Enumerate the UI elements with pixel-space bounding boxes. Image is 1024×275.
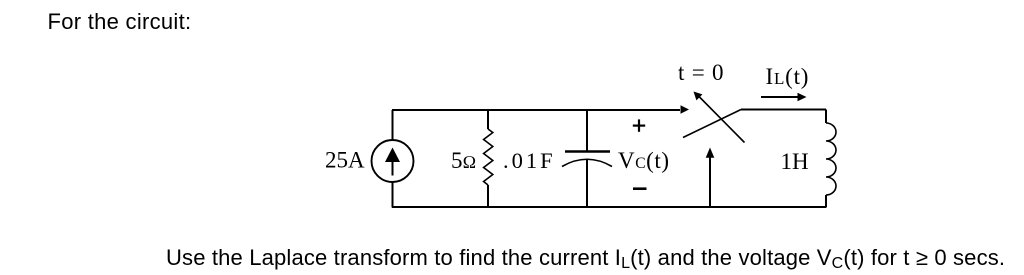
switch pole riser from bottom rail [709, 155, 711, 208]
wire: resistor bottom lead [487, 185, 489, 208]
current arrow IL(t) [761, 93, 807, 101]
switch blade (opening motion line) [699, 97, 745, 143]
resistor zigzag body [484, 129, 493, 185]
switch pole arrow head [706, 148, 715, 158]
svg-text:.01F: .01F [503, 148, 556, 173]
source arrow head [385, 148, 400, 163]
question text [166, 245, 1005, 271]
inductor L1 1H [826, 110, 836, 208]
wire: source top lead [392, 110, 394, 140]
svg-text:t = 0: t = 0 [678, 60, 724, 85]
wire: inductor top lead [825, 110, 827, 124]
wire: source bottom lead [392, 182, 394, 208]
capacitor top plate [565, 150, 610, 152]
switch SW1 t=0 [683, 92, 745, 208]
label minus [633, 187, 647, 190]
svg-text:25A: 25A [325, 148, 365, 173]
source circle [372, 140, 414, 182]
arrow head [798, 93, 807, 101]
svg-text:VC(t): VC(t) [618, 148, 670, 173]
heading text [48, 9, 192, 35]
inductor coil bumps [826, 123, 836, 195]
switch closed-contact diagonal [683, 110, 741, 138]
capacitor curved bottom plate [562, 159, 612, 166]
wire: capacitor top lead [586, 110, 588, 151]
wire: top rail from source to switch contact [392, 109, 680, 111]
current source I1 25A [372, 110, 414, 208]
svg-text:IL(t): IL(t) [766, 64, 810, 89]
label plus [633, 119, 645, 131]
node arrowhead at switch left contact [681, 105, 690, 113]
capacitor C1 .01F [562, 110, 612, 208]
wire: switch to inductor top [741, 109, 826, 111]
wire: bottom rail [392, 206, 826, 208]
wire: resistor top lead [487, 110, 489, 129]
source arrow shaft [392, 159, 394, 176]
arrow shaft [761, 96, 798, 98]
svg-text:1H: 1H [781, 149, 809, 174]
switch blade arrow head [694, 92, 703, 101]
resistor R1 5ohm [484, 110, 493, 208]
svg-text:5Ω: 5Ω [451, 148, 476, 173]
wire: inductor bottom lead [825, 195, 827, 208]
wire: capacitor bottom lead [586, 160, 588, 208]
